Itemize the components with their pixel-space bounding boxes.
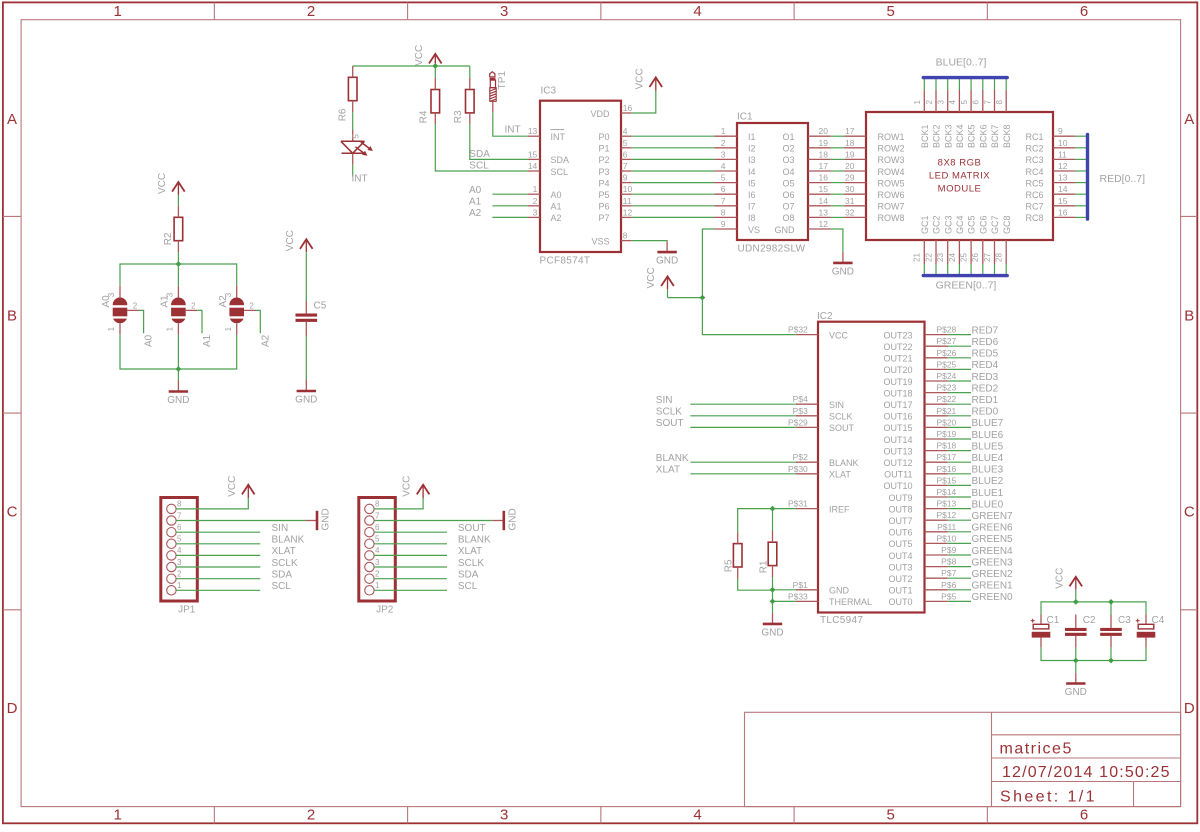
wire VCC rail R6-R3 bbox=[353, 64, 470, 66]
svg-text:P$10: P$10 bbox=[936, 533, 956, 543]
wire THERMAL junction to ground bbox=[772, 601, 774, 613]
svg-text:P$27: P$27 bbox=[936, 336, 956, 346]
bus RED vertical bbox=[1086, 135, 1089, 220]
svg-text:RED5: RED5 bbox=[972, 349, 999, 360]
svg-text:P$19: P$19 bbox=[936, 429, 956, 439]
svg-text:VCC: VCC bbox=[157, 173, 168, 194]
JP1 pin6 wire SIN bbox=[176, 531, 260, 533]
power VCC above C5 bbox=[285, 230, 313, 252]
svg-text:BCK6: BCK6 bbox=[978, 124, 988, 148]
svg-text:VSS: VSS bbox=[591, 236, 609, 246]
JP2 pin1 wire SCL bbox=[374, 589, 447, 591]
svg-text:A0: A0 bbox=[551, 190, 562, 200]
svg-text:OUT10: OUT10 bbox=[883, 481, 912, 491]
power VCC above R4 bbox=[414, 45, 442, 67]
wires matrix top pins to bus bbox=[924, 78, 1006, 90]
svg-text:SOUT: SOUT bbox=[656, 418, 684, 429]
svg-text:5: 5 bbox=[177, 535, 182, 544]
svg-text:RED0: RED0 bbox=[972, 407, 999, 418]
svg-text:BCK4: BCK4 bbox=[955, 124, 965, 148]
svg-text:BCK3: BCK3 bbox=[943, 124, 953, 148]
svg-text:TP1: TP1 bbox=[497, 71, 508, 90]
svg-text:7: 7 bbox=[721, 196, 726, 206]
svg-text:P$17: P$17 bbox=[936, 452, 956, 462]
svg-text:GC4: GC4 bbox=[955, 215, 965, 234]
svg-text:2: 2 bbox=[533, 196, 538, 206]
svg-text:IC3: IC3 bbox=[541, 85, 557, 96]
svg-text:GREEN6: GREEN6 bbox=[972, 523, 1014, 534]
wires IC3 P0-P7 to IC1 I1-I8 bbox=[632, 136, 715, 217]
matrix bottom pin numbers 21-28 bbox=[913, 253, 1004, 262]
svg-text:OUT20: OUT20 bbox=[883, 365, 912, 375]
svg-text:RED4: RED4 bbox=[972, 360, 999, 371]
capacitor C4 polarized bbox=[1136, 615, 1165, 648]
svg-text:GND: GND bbox=[775, 225, 796, 235]
svg-text:15: 15 bbox=[528, 149, 538, 159]
svg-text:P$29: P$29 bbox=[788, 417, 808, 427]
resistor R6 bbox=[338, 77, 357, 121]
junction THERMAL bbox=[770, 599, 776, 605]
svg-text:14: 14 bbox=[819, 196, 829, 206]
svg-text:12: 12 bbox=[819, 219, 829, 229]
svg-text:VCC: VCC bbox=[414, 45, 425, 66]
wire to THERMAL pin bbox=[773, 590, 796, 602]
JP1 pin4 wire XLAT bbox=[176, 554, 260, 556]
svg-text:BLUE2: BLUE2 bbox=[972, 476, 1004, 487]
svg-text:GC6: GC6 bbox=[978, 215, 988, 234]
svg-text:P$16: P$16 bbox=[936, 464, 956, 474]
svg-text:8: 8 bbox=[375, 500, 380, 509]
svg-text:4: 4 bbox=[623, 126, 628, 136]
svg-text:INT: INT bbox=[551, 132, 566, 142]
svg-text:C2: C2 bbox=[1083, 615, 1096, 626]
svg-text:BLUE[0..7]: BLUE[0..7] bbox=[936, 57, 987, 69]
svg-text:20: 20 bbox=[845, 161, 855, 171]
svg-text:6: 6 bbox=[721, 184, 726, 194]
svg-text:OUT13: OUT13 bbox=[883, 446, 912, 456]
svg-text:32: 32 bbox=[845, 207, 855, 217]
svg-text:I5: I5 bbox=[748, 178, 756, 188]
svg-text:13: 13 bbox=[819, 207, 829, 217]
svg-text:C: C bbox=[7, 504, 18, 521]
svg-text:OUT22: OUT22 bbox=[883, 342, 912, 352]
svg-text:IREF: IREF bbox=[829, 504, 850, 514]
svg-text:16: 16 bbox=[623, 103, 633, 113]
IC2 OUT pin names bbox=[883, 330, 912, 607]
svg-text:P$25: P$25 bbox=[936, 359, 956, 369]
svg-text:OUT0: OUT0 bbox=[888, 597, 912, 607]
wire R2 to jumper rail bbox=[177, 252, 179, 264]
svg-text:3: 3 bbox=[500, 807, 508, 824]
svg-text:ROW2: ROW2 bbox=[878, 144, 905, 154]
svg-text:SCL: SCL bbox=[458, 581, 478, 592]
svg-text:RED1: RED1 bbox=[972, 395, 999, 406]
capacitor C3 bbox=[1100, 615, 1131, 648]
IC1 left pin stubs bbox=[714, 136, 737, 229]
svg-text:GREEN1: GREEN1 bbox=[972, 581, 1014, 592]
matrix title text bbox=[929, 157, 990, 194]
svg-text:4: 4 bbox=[375, 546, 380, 555]
svg-text:24: 24 bbox=[948, 253, 957, 262]
ground below capacitor bank bbox=[1065, 673, 1087, 698]
svg-text:SCLK: SCLK bbox=[829, 412, 853, 422]
svg-text:VCC: VCC bbox=[285, 230, 296, 251]
junction GND rail bbox=[770, 587, 776, 593]
frame column numbers bottom 1-6 bbox=[114, 807, 1089, 824]
svg-text:A2: A2 bbox=[260, 334, 271, 347]
svg-text:4: 4 bbox=[693, 3, 701, 20]
svg-text:GND: GND bbox=[295, 395, 317, 406]
svg-text:SIN: SIN bbox=[829, 400, 844, 410]
svg-text:P$22: P$22 bbox=[936, 394, 956, 404]
svg-text:A1: A1 bbox=[469, 197, 482, 208]
matrix BCK pin names bbox=[920, 124, 1012, 148]
svg-text:8: 8 bbox=[995, 100, 1004, 105]
svg-text:GC3: GC3 bbox=[943, 215, 953, 234]
IC3 right pin numbers bbox=[623, 103, 633, 241]
svg-text:26: 26 bbox=[971, 253, 980, 262]
svg-text:P5: P5 bbox=[598, 190, 609, 200]
svg-text:21: 21 bbox=[913, 253, 922, 262]
JP2 pin numbers bbox=[375, 500, 380, 590]
wire VSS to GND bbox=[632, 240, 667, 243]
svg-text:R4: R4 bbox=[419, 110, 430, 123]
wire IREF to resistors bbox=[738, 509, 796, 533]
wire A2 pin2 stub bbox=[256, 310, 261, 333]
svg-text:OUT2: OUT2 bbox=[888, 574, 912, 584]
svg-text:1: 1 bbox=[177, 581, 182, 590]
IC1 right pin numbers bbox=[819, 126, 829, 229]
svg-text:I3: I3 bbox=[748, 155, 756, 165]
svg-text:P$12: P$12 bbox=[936, 510, 956, 520]
JP2 pin7 wire to GND bbox=[374, 520, 492, 522]
svg-text:OUT11: OUT11 bbox=[884, 470, 912, 480]
JP1 pin circles bbox=[167, 504, 176, 595]
svg-text:IC2: IC2 bbox=[817, 311, 833, 322]
svg-text:7: 7 bbox=[375, 511, 380, 520]
JP1 pin8 wire to VCC bbox=[176, 497, 248, 509]
svg-text:SCL: SCL bbox=[272, 581, 292, 592]
matrix ROW pin names bbox=[878, 132, 905, 223]
JP2 pin8 wire to VCC bbox=[374, 497, 423, 509]
svg-text:RC1: RC1 bbox=[1025, 132, 1043, 142]
svg-text:OUT5: OUT5 bbox=[888, 539, 912, 549]
svg-text:O5: O5 bbox=[782, 178, 794, 188]
svg-text:I8: I8 bbox=[748, 213, 756, 223]
svg-text:6: 6 bbox=[177, 523, 182, 532]
svg-text:29: 29 bbox=[845, 173, 855, 183]
svg-text:OUT3: OUT3 bbox=[888, 562, 912, 572]
svg-text:R3: R3 bbox=[453, 110, 464, 123]
wire GND rail to IC2 GND pin bbox=[773, 589, 796, 591]
svg-text:SDA: SDA bbox=[458, 570, 479, 581]
svg-text:SDA: SDA bbox=[469, 149, 490, 160]
wires IC2 outputs bbox=[948, 335, 971, 602]
svg-text:BCK5: BCK5 bbox=[967, 124, 977, 148]
matrix GC pin names bbox=[920, 215, 1012, 234]
JP1 pin2 wire SDA bbox=[176, 578, 260, 580]
svg-text:GC8: GC8 bbox=[1002, 215, 1012, 234]
wire R5 R1 to GND rail bbox=[738, 579, 773, 591]
svg-text:VDD: VDD bbox=[590, 109, 610, 119]
svg-text:1: 1 bbox=[107, 326, 116, 331]
junction top rail C2 bbox=[1073, 599, 1079, 605]
svg-text:OUT23: OUT23 bbox=[883, 330, 912, 340]
wire A2 net bbox=[492, 216, 527, 218]
frame row letters left A-D bbox=[7, 111, 18, 717]
JP1 pin3 wire SCLK bbox=[176, 566, 260, 568]
svg-text:A: A bbox=[1184, 111, 1194, 128]
svg-text:GND: GND bbox=[321, 508, 332, 530]
svg-text:17: 17 bbox=[819, 161, 829, 171]
svg-text:OUT14: OUT14 bbox=[883, 435, 912, 445]
svg-text:23: 23 bbox=[936, 253, 945, 262]
svg-text:SOUT: SOUT bbox=[458, 523, 486, 534]
svg-text:P$21: P$21 bbox=[936, 406, 956, 416]
svg-text:ROW1: ROW1 bbox=[878, 132, 905, 142]
svg-text:P1: P1 bbox=[598, 144, 609, 154]
power VCC at JP1 bbox=[227, 476, 255, 498]
svg-text:GREEN7: GREEN7 bbox=[972, 511, 1014, 522]
svg-text:18: 18 bbox=[819, 149, 829, 159]
resistor R1 bbox=[758, 542, 776, 573]
svg-text:27: 27 bbox=[983, 253, 992, 262]
svg-text:GND: GND bbox=[167, 395, 189, 406]
connector JP2 box bbox=[359, 498, 396, 602]
svg-text:16: 16 bbox=[1058, 207, 1068, 217]
wire A1 net bbox=[492, 205, 527, 207]
wire VCC to C5 bbox=[305, 253, 307, 301]
svg-text:1: 1 bbox=[533, 184, 538, 194]
svg-text:P2: P2 bbox=[598, 155, 609, 165]
svg-text:BLUE6: BLUE6 bbox=[972, 430, 1004, 441]
svg-text:P$3: P$3 bbox=[793, 406, 808, 416]
svg-text:XLAT: XLAT bbox=[829, 470, 851, 480]
capacitor C5 bbox=[296, 301, 327, 337]
wire bottom rail A0-A2 bbox=[120, 335, 237, 369]
power VCC above R2 bbox=[157, 173, 185, 195]
svg-text:10: 10 bbox=[1058, 138, 1068, 148]
svg-text:7: 7 bbox=[623, 161, 628, 171]
JP1 pin5 wire BLANK bbox=[176, 543, 260, 545]
svg-text:3: 3 bbox=[177, 558, 182, 567]
svg-text:A: A bbox=[7, 111, 17, 128]
svg-text:9: 9 bbox=[1058, 126, 1063, 136]
svg-text:RC8: RC8 bbox=[1025, 213, 1043, 223]
svg-text:RC7: RC7 bbox=[1025, 202, 1043, 212]
svg-text:3: 3 bbox=[500, 3, 508, 20]
matrix right pin stubs RC1-8 bbox=[1053, 136, 1075, 217]
svg-text:A2: A2 bbox=[551, 213, 562, 223]
svg-text:P$8: P$8 bbox=[941, 557, 956, 567]
LED diode INT bbox=[341, 141, 373, 165]
wire A0 net bbox=[492, 193, 527, 195]
IC2 left pin stubs bbox=[796, 335, 818, 602]
svg-text:P$2: P$2 bbox=[793, 452, 808, 462]
IC3 left pin names bbox=[551, 130, 570, 224]
svg-text:5: 5 bbox=[375, 535, 380, 544]
svg-text:RC5: RC5 bbox=[1025, 178, 1043, 188]
svg-text:LED MATRIX: LED MATRIX bbox=[929, 170, 990, 181]
JP1 pin numbers bbox=[177, 500, 182, 590]
LED matrix module box bbox=[866, 112, 1053, 240]
junction VCC node bbox=[700, 295, 706, 301]
svg-text:P$20: P$20 bbox=[936, 417, 956, 427]
matrix right pin numbers 9-16 bbox=[1058, 126, 1068, 217]
svg-text:O3: O3 bbox=[782, 155, 794, 165]
IC3 right pin stubs bbox=[621, 113, 632, 241]
svg-text:6: 6 bbox=[623, 149, 628, 159]
wire bottom rail to GND bbox=[1075, 661, 1077, 673]
svg-text:GC2: GC2 bbox=[932, 215, 942, 234]
svg-text:P$31: P$31 bbox=[788, 499, 808, 509]
frame row letters right A-D bbox=[1184, 111, 1195, 717]
svg-text:4: 4 bbox=[721, 161, 726, 171]
junction top rail C3 bbox=[1108, 599, 1114, 605]
svg-text:3: 3 bbox=[375, 558, 380, 567]
svg-text:13: 13 bbox=[528, 126, 538, 136]
frame column numbers top 1-6 bbox=[114, 3, 1089, 20]
svg-text:10: 10 bbox=[623, 184, 633, 194]
svg-text:I1: I1 bbox=[748, 132, 756, 142]
svg-text:O7: O7 bbox=[782, 202, 794, 212]
svg-text:P$15: P$15 bbox=[936, 475, 956, 485]
svg-text:15: 15 bbox=[819, 184, 829, 194]
connector JP1 box bbox=[161, 498, 198, 602]
wire A1 pin2 stub bbox=[197, 310, 202, 333]
svg-text:UDN2982SLW: UDN2982SLW bbox=[738, 244, 806, 255]
svg-text:8: 8 bbox=[721, 207, 726, 217]
wire IC1 VS to VCC node bbox=[702, 229, 714, 298]
svg-text:4: 4 bbox=[177, 546, 182, 555]
testpoint TP1 bbox=[490, 71, 508, 113]
IC2 right pin stubs bbox=[925, 335, 948, 602]
svg-text:A0: A0 bbox=[144, 334, 155, 347]
svg-text:ROW7: ROW7 bbox=[878, 202, 905, 212]
svg-text:2: 2 bbox=[133, 301, 138, 310]
svg-text:OUT17: OUT17 bbox=[883, 400, 912, 410]
svg-text:R1: R1 bbox=[758, 560, 769, 573]
svg-text:P$13: P$13 bbox=[936, 499, 956, 509]
svg-text:INT: INT bbox=[352, 174, 368, 185]
wire A1 pin3 to rail bbox=[177, 264, 179, 286]
svg-text:5: 5 bbox=[721, 173, 726, 183]
JP2 pin5 wire BLANK bbox=[374, 543, 447, 545]
svg-text:I4: I4 bbox=[748, 167, 756, 177]
svg-text:P$9: P$9 bbox=[941, 545, 956, 555]
wire BLANK net bbox=[690, 461, 796, 463]
svg-text:17: 17 bbox=[845, 126, 855, 136]
svg-text:BLUE5: BLUE5 bbox=[972, 441, 1004, 452]
IC2 left pin names bbox=[829, 330, 872, 607]
IC1 right pin names bbox=[775, 132, 796, 235]
svg-text:SCLK: SCLK bbox=[272, 558, 298, 569]
svg-text:GND: GND bbox=[829, 586, 850, 596]
wire cap bottom rail bbox=[1041, 647, 1146, 660]
matrix top pin stubs bbox=[924, 90, 1006, 112]
svg-text:P$4: P$4 bbox=[793, 394, 808, 404]
svg-text:GREEN[0..7]: GREEN[0..7] bbox=[936, 280, 997, 292]
svg-text:BLUE0: BLUE0 bbox=[972, 499, 1004, 510]
svg-text:SIN: SIN bbox=[656, 395, 673, 406]
svg-text:19: 19 bbox=[845, 149, 855, 159]
svg-text:7: 7 bbox=[177, 511, 182, 520]
svg-text:2: 2 bbox=[721, 138, 726, 148]
svg-text:C3: C3 bbox=[1118, 615, 1131, 626]
svg-text:OUT16: OUT16 bbox=[883, 412, 912, 422]
svg-text:BLANK: BLANK bbox=[656, 453, 689, 464]
svg-text:9: 9 bbox=[623, 173, 628, 183]
svg-text:2: 2 bbox=[375, 570, 380, 579]
ground at IC3 VSS bbox=[656, 242, 678, 267]
title block outline bbox=[745, 712, 1182, 806]
wire SOUT net bbox=[690, 426, 796, 428]
svg-text:25: 25 bbox=[960, 253, 969, 262]
svg-text:VCC: VCC bbox=[829, 330, 849, 340]
svg-text:PCF8574T: PCF8574T bbox=[540, 256, 591, 267]
svg-text:14: 14 bbox=[528, 161, 538, 171]
svg-text:GND: GND bbox=[832, 267, 854, 278]
svg-text:BLUE7: BLUE7 bbox=[972, 418, 1004, 429]
svg-text:2: 2 bbox=[307, 807, 315, 824]
bus GREEN bbox=[923, 274, 1007, 277]
svg-text:SCL: SCL bbox=[551, 167, 569, 177]
svg-text:JP2: JP2 bbox=[376, 605, 394, 616]
svg-text:1: 1 bbox=[166, 326, 175, 331]
svg-text:7: 7 bbox=[983, 100, 992, 105]
svg-text:12: 12 bbox=[1058, 161, 1068, 171]
solder jumper A1 bbox=[160, 286, 198, 335]
svg-text:SCLK: SCLK bbox=[656, 407, 682, 418]
svg-text:P0: P0 bbox=[598, 132, 609, 142]
svg-text:A2: A2 bbox=[218, 295, 229, 308]
frame column ticks bottom bbox=[214, 807, 987, 824]
svg-text:RC2: RC2 bbox=[1025, 144, 1043, 154]
svg-text:1: 1 bbox=[375, 581, 380, 590]
svg-text:VCC: VCC bbox=[402, 476, 413, 497]
svg-text:BLUE3: BLUE3 bbox=[972, 465, 1004, 476]
svg-text:VCC: VCC bbox=[634, 68, 645, 89]
svg-text:P3: P3 bbox=[598, 167, 609, 177]
svg-text:VCC: VCC bbox=[646, 267, 657, 288]
svg-text:ROW4: ROW4 bbox=[878, 167, 905, 177]
svg-text:GREEN3: GREEN3 bbox=[972, 557, 1014, 568]
matrix left pin stubs ROW1-8 bbox=[844, 136, 866, 217]
wire R3 to SDA bbox=[470, 124, 528, 159]
svg-text:P$33: P$33 bbox=[788, 591, 808, 601]
wire VDD to VCC bbox=[632, 90, 656, 113]
wire LED cathode stub bbox=[352, 165, 354, 177]
resistor R2 bbox=[163, 217, 183, 245]
svg-text:VCC: VCC bbox=[1054, 568, 1065, 589]
svg-text:BCK2: BCK2 bbox=[932, 124, 942, 148]
JP2 pin2 wire SDA bbox=[374, 578, 447, 580]
svg-text:2: 2 bbox=[191, 301, 196, 310]
svg-text:I7: I7 bbox=[748, 202, 756, 212]
svg-text:6: 6 bbox=[375, 523, 380, 532]
svg-text:5: 5 bbox=[960, 100, 969, 105]
svg-text:A1: A1 bbox=[160, 295, 171, 308]
junction bottom rail C2 bbox=[1073, 658, 1079, 664]
wire VCC to node bbox=[667, 290, 669, 298]
svg-text:BLANK: BLANK bbox=[829, 458, 859, 468]
svg-text:P$24: P$24 bbox=[936, 371, 956, 381]
IC1 left pin names bbox=[748, 132, 760, 235]
power VCC at capacitor bank bbox=[1054, 568, 1082, 590]
capacitor C1 polarized bbox=[1031, 615, 1060, 648]
svg-text:P$6: P$6 bbox=[941, 580, 956, 590]
svg-text:P$32: P$32 bbox=[788, 325, 808, 335]
